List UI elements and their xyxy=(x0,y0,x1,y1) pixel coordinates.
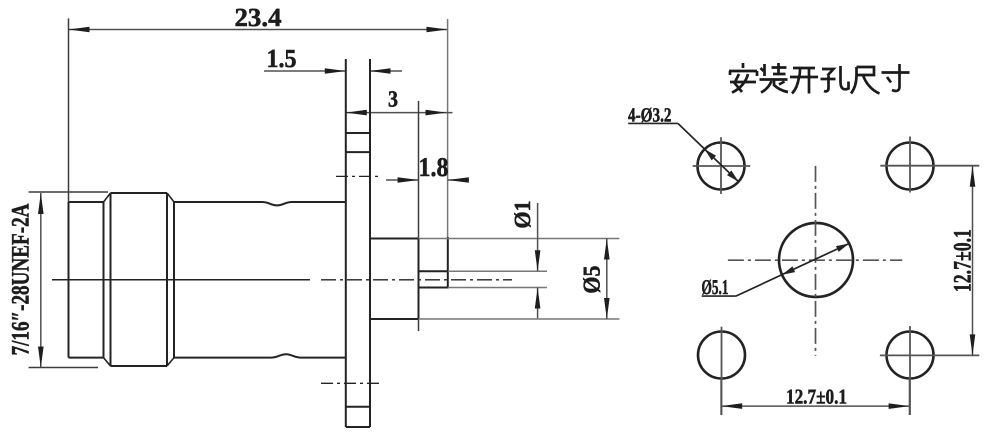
char KAI xyxy=(790,68,818,94)
connector body front face xyxy=(69,193,346,366)
flange xyxy=(346,59,370,427)
svg-text:3: 3 xyxy=(388,87,398,112)
dim 1.5 xyxy=(264,44,402,74)
barrel bottom edge with break wave xyxy=(174,354,346,357)
char ZHUANG xyxy=(760,63,789,93)
flange hole centerline top xyxy=(336,175,382,177)
label d5.1 xyxy=(702,244,850,300)
label 4-d3.2 xyxy=(628,105,739,182)
rear barrel xyxy=(370,101,419,331)
svg-text:12.7±0.1: 12.7±0.1 xyxy=(786,385,847,409)
title text (Chinese) drawn as strokes xyxy=(729,63,910,94)
dia1 extension lines xyxy=(448,270,547,272)
hole BL xyxy=(698,327,745,415)
svg-text:1.5: 1.5 xyxy=(267,44,297,73)
svg-text:Ø1: Ø1 xyxy=(510,201,535,229)
dia5 extension lines xyxy=(419,238,620,240)
dim 12.7 right xyxy=(950,166,977,356)
svg-text:7/16″-28UNEF-2A: 7/16″-28UNEF-2A xyxy=(8,204,35,356)
barrel top edge with break wave xyxy=(174,202,346,205)
dim 3 xyxy=(346,87,453,116)
hole TR xyxy=(880,137,979,193)
dim dia1 xyxy=(510,201,540,319)
svg-text:Ø5: Ø5 xyxy=(580,266,606,294)
center hole xyxy=(728,166,902,356)
char CHI xyxy=(851,67,880,94)
dim dia5 xyxy=(580,239,610,320)
char AN xyxy=(729,63,757,93)
thread section xyxy=(103,202,105,358)
hole TL xyxy=(693,137,751,194)
centerline dash-dot part xyxy=(321,279,512,281)
ext line right of 23.4 (gray) xyxy=(447,19,449,238)
hole BR xyxy=(880,326,979,415)
dim 1.8 xyxy=(386,152,469,183)
svg-text:23.4: 23.4 xyxy=(235,3,282,32)
svg-text:1.8: 1.8 xyxy=(419,152,449,182)
dim 7/16-28UNEF-2A xyxy=(8,192,109,368)
pin xyxy=(419,237,448,289)
dim 23.4 xyxy=(69,3,448,32)
char KONG xyxy=(821,66,849,91)
ext line left of 23.4 xyxy=(68,18,70,202)
dim 12.7 bottom xyxy=(721,380,909,415)
char CUN xyxy=(882,64,910,91)
flange hole centerline bottom xyxy=(321,382,382,384)
svg-text:12.7±0.1: 12.7±0.1 xyxy=(950,229,977,292)
centerline solid part xyxy=(52,279,310,281)
